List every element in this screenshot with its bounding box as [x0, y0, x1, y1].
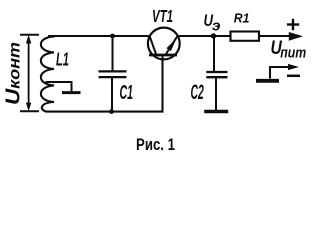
svg-text:L1: L1 [56, 50, 69, 70]
wire R1 to plus terminal [260, 32, 304, 41]
inductor L1 [41, 36, 55, 111]
svg-text:C1: C1 [120, 81, 134, 104]
svg-text:э: э [212, 17, 221, 34]
wire base lead [161, 56, 163, 111]
label node Uэ [204, 12, 221, 34]
svg-text:пит: пит [280, 45, 306, 62]
resistor R1 [231, 32, 260, 41]
capacitor C2 [206, 36, 227, 110]
ground negative terminal [256, 67, 290, 81]
svg-text:Uконт: Uконт [3, 42, 25, 105]
wire negative terminal arrow [288, 64, 299, 70]
transistor VT1 [148, 28, 180, 60]
label minus [287, 75, 300, 78]
wire coil tap [46, 82, 72, 91]
wire top rail [48, 35, 150, 37]
ground C2 bottom [204, 110, 228, 114]
wire emitter to node [178, 35, 230, 37]
label plus [287, 19, 299, 30]
svg-text:C2: C2 [191, 81, 204, 104]
label Uпит [271, 38, 307, 62]
node junction dot C1 top [110, 34, 115, 39]
capacitor C1 [99, 36, 127, 112]
node junction dot C1 bottom [109, 109, 114, 114]
measurement arrow Uконт [20, 35, 39, 112]
ground coil tap [62, 91, 81, 94]
svg-text:R1: R1 [234, 11, 250, 25]
wire bottom rail [45, 111, 164, 113]
svg-text:Рис. 1: Рис. 1 [136, 136, 175, 154]
node Uэ junction dot [211, 33, 216, 38]
svg-text:VT1: VT1 [152, 6, 173, 26]
